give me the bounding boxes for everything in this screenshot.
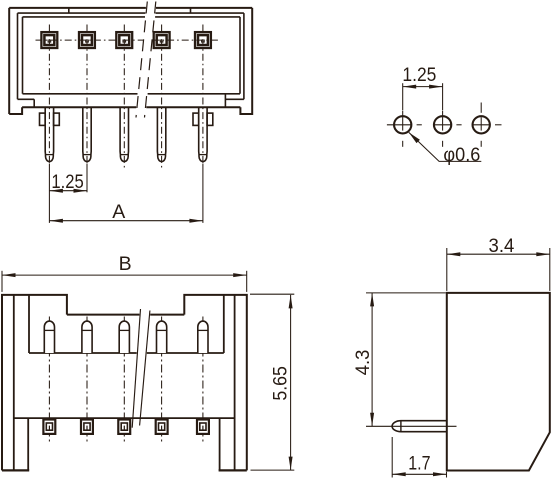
- dimension B: extension lines: [1, 271, 3, 292]
- front view: contact dome pin 3: [119, 321, 129, 353]
- svg-text:5.65: 5.65: [270, 366, 292, 401]
- dimension 4.3: dimension line and arrows: [371, 293, 373, 426]
- dimension 1.25 (hole pitch): extension lines: [402, 83, 404, 110]
- top view: contact square pin 4: [154, 32, 170, 48]
- svg-text:φ0.6: φ0.6: [443, 144, 480, 166]
- top view: solder leg pin 5: [199, 107, 207, 161]
- top view: second wall line: [18, 13, 244, 99]
- hole pattern: hole circle 2 (PCB drill): [434, 116, 451, 133]
- side view: solder pin (bullet): [392, 421, 447, 432]
- top view: boss tabs pin 1: [40, 113, 46, 125]
- top view: vertical centerline pin 5: [202, 25, 204, 167]
- dimension 5.65: dimension line and arrows: [290, 295, 292, 470]
- front view: flange line: [14, 417, 235, 419]
- front view: centerline pin 1: [48, 317, 50, 444]
- front view: contact dome pin 4: [157, 321, 167, 353]
- hole pattern: vertical centerline hole 2: [442, 111, 444, 131]
- front view: feet bottom edges: [2, 469, 29, 471]
- top view: outer housing outline: [9, 8, 252, 114]
- front view: solder tail square pin 5: [197, 420, 209, 434]
- dimension 1.25 (top view pitch): dimension line and arrows: [49, 190, 87, 192]
- svg-text:1.25: 1.25: [51, 171, 84, 193]
- hole pattern: hole circle 1 (PCB drill): [394, 116, 411, 133]
- top view: long bottom edge (broken): [22, 106, 136, 108]
- dimension 3.4: dimension line and arrows: [447, 253, 550, 255]
- top view: solder leg pin 2: [83, 107, 91, 161]
- svg-text:1.25: 1.25: [402, 64, 436, 86]
- hole pattern: vertical centerline hole 1: [402, 111, 404, 131]
- front view: contact dome pin 5: [198, 321, 208, 353]
- front view: outer body outline: [2, 295, 247, 471]
- hole pattern: hole circle 3 (PCB drill): [473, 116, 490, 133]
- dimension 4.3: top extension line: [366, 292, 446, 294]
- top view: contact square pin 2: [79, 32, 95, 48]
- front view: centerline pin 4: [161, 317, 163, 444]
- top view: contact square pin 3: [116, 32, 132, 48]
- svg-text:B: B: [119, 253, 132, 275]
- front view: solder tail square pin 3: [118, 420, 130, 434]
- dimension A (top view overall pitch): dimension line and arrows: [49, 220, 203, 222]
- front view: cavity floor (broken): [29, 352, 137, 354]
- top view: rim notch ticks: [68, 8, 70, 13]
- top view: contact square pin 5: [195, 32, 211, 48]
- front view: break line right: [140, 311, 150, 426]
- front view: solder tail square pin 1: [43, 420, 55, 434]
- top view: boss tabs pin 5: [193, 113, 199, 125]
- front view: centerline pin 2: [86, 317, 88, 444]
- front view: contact dome pin 2: [82, 321, 92, 353]
- dimension B: dimension line and arrows: [2, 274, 247, 276]
- top view: contact square pin 1: [41, 32, 57, 48]
- top view: solder leg pin 4: [157, 107, 165, 161]
- svg-text:3.4: 3.4: [489, 235, 515, 257]
- top view: outer top edge (broken): [9, 7, 146, 9]
- top view: break line left: [136, 2, 147, 118]
- hole diameter leader line: [409, 132, 482, 161]
- svg-text:4.3: 4.3: [352, 350, 374, 376]
- dimension 5.65: extension lines: [250, 293, 294, 295]
- svg-text:1.7: 1.7: [408, 452, 430, 474]
- top view: vertical centerline pin 3: [123, 25, 125, 170]
- top view: inner cavity rectangle: [23, 17, 241, 94]
- front view: centerline pin 5: [202, 317, 204, 444]
- front view: solder tail square pin 2: [81, 420, 93, 434]
- dimension 3.4: extension lines: [446, 248, 448, 291]
- front view: recessed top edge (broken): [67, 314, 139, 316]
- top view: solder leg pin 3: [120, 107, 128, 161]
- hole pattern: horizontal centerline: [387, 124, 411, 126]
- hole pattern: vertical centerline hole 3: [480, 103, 482, 113]
- top view: solder leg pin 1: [45, 107, 53, 161]
- top view: break line right: [145, 2, 156, 118]
- dimension 1.25 (hole pitch): dimension line and arrows: [403, 86, 443, 88]
- dimension 1.7: dimension line and arrows: [392, 473, 446, 475]
- top view: horizontal centerline: [36, 39, 144, 41]
- front view: foot inner verticals: [27, 418, 29, 470]
- front view: break line left: [132, 309, 140, 428]
- side view: pin centerline / 4.3 extension: [366, 425, 457, 427]
- dimension 1.25 (top view pitch): extension lines: [48, 164, 50, 223]
- front view: solder tail square pin 4: [156, 420, 168, 434]
- dimension 1.7: extension lines: [391, 437, 393, 478]
- top view: wall bottom stubs and steps: [18, 98, 35, 100]
- front view: inner wall lines: [13, 295, 15, 471]
- top view: vertical centerline pin 2: [86, 25, 88, 167]
- top view: vertical centerline pin 4: [161, 25, 163, 170]
- front view: cavity side walls: [28, 295, 30, 353]
- top view: vertical centerline pin 1: [48, 25, 50, 167]
- front view: centerline pin 3: [123, 317, 125, 444]
- front view: contact dome pin 1: [44, 321, 54, 353]
- svg-text:A: A: [112, 201, 125, 223]
- side view: body outline with chamfer: [447, 293, 550, 471]
